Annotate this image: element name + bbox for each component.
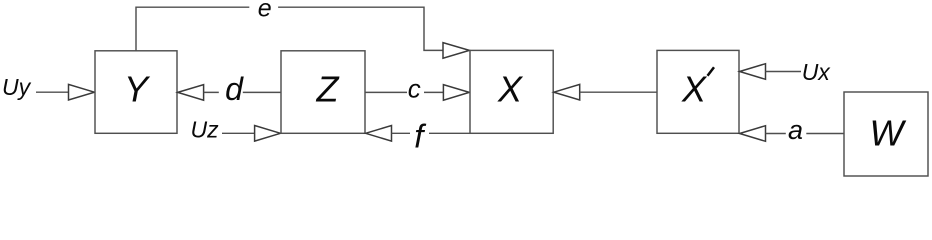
svg-text:W: W — [870, 113, 907, 154]
wire d (Y to Z) — [204, 91, 281, 93]
svg-text:a: a — [788, 115, 803, 145]
arrowhead c into X — [443, 85, 469, 101]
svg-text:Uz: Uz — [191, 117, 220, 143]
svg-text:Y: Y — [124, 69, 151, 110]
box Z — [281, 51, 365, 134]
svg-text:d: d — [225, 71, 244, 107]
wire e (Y top to X top-left) — [136, 7, 443, 51]
box Y — [95, 51, 177, 134]
arrowhead a into X' — [740, 126, 766, 142]
svg-text:X: X — [681, 69, 708, 110]
box X — [470, 50, 553, 133]
arrowhead d into Y — [178, 85, 204, 101]
wire Uy lead — [36, 91, 69, 93]
arrowhead into X from X' — [554, 84, 580, 100]
wire a (W to X') — [766, 133, 845, 135]
arrowhead Uy into Y — [69, 84, 95, 100]
svg-text:Z: Z — [316, 69, 340, 110]
wire Ux lead — [766, 71, 802, 73]
svg-text:c: c — [408, 73, 421, 103]
svg-text:Uy: Uy — [2, 74, 32, 100]
arrowhead e into X — [443, 43, 469, 59]
wire Uz lead — [222, 132, 255, 134]
box X' — [657, 50, 739, 133]
arrowhead f into Z — [366, 126, 392, 142]
arrowhead Ux into X' — [740, 64, 766, 80]
svg-text:e: e — [258, 0, 272, 23]
wire X' to X — [580, 91, 657, 93]
arrowhead Uz into Z — [255, 126, 281, 142]
svg-text:X: X — [497, 69, 524, 110]
box W — [844, 92, 928, 176]
wire f (X bottom-left to Z) — [392, 132, 471, 134]
prime mark of X' — [708, 67, 715, 76]
wire c (Z to X) — [365, 91, 443, 93]
svg-text:Ux: Ux — [802, 59, 832, 85]
